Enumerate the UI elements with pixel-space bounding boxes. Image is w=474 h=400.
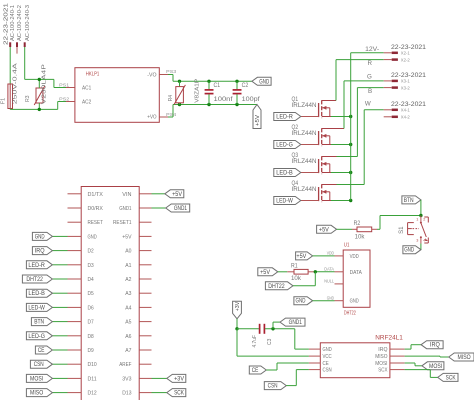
net label G — [367, 74, 372, 81]
svg-text:X2-1: X2-1 — [401, 51, 411, 56]
capacitor C2 100pf — [233, 81, 260, 104]
pin A3 (right) — [139, 292, 151, 294]
svg-text:NULL: NULL — [324, 279, 334, 284]
svg-text:3V3: 3V3 — [122, 376, 131, 382]
pin A5 (right) — [139, 321, 151, 323]
junction C1 top — [207, 80, 210, 83]
junction source Q4 — [349, 199, 352, 202]
svg-text:A5: A5 — [125, 320, 131, 326]
pin +5V (right) — [139, 235, 151, 237]
svg-text:D11: D11 — [88, 376, 97, 382]
svg-text:DHT22: DHT22 — [268, 284, 285, 290]
svg-text:1: 1 — [416, 218, 418, 222]
svg-text:LED-G: LED-G — [28, 334, 45, 340]
varistor R3 — [25, 64, 48, 105]
svg-text:GND: GND — [259, 79, 269, 85]
svg-text:IRQ: IRQ — [35, 249, 45, 255]
pin IRQ of NRF — [390, 348, 405, 350]
svg-text:GND1: GND1 — [119, 206, 131, 212]
junction node R3 bottom — [38, 108, 41, 111]
junction source Q1 — [349, 115, 352, 118]
svg-text:VCC: VCC — [323, 354, 332, 360]
pin D12 (left) — [68, 392, 82, 394]
pin MISO of NRF — [390, 355, 405, 357]
svg-text:+5V: +5V — [172, 192, 182, 198]
svg-text:10k: 10k — [355, 235, 366, 241]
svg-text:PS1: PS1 — [59, 82, 70, 87]
svg-text:MOSI: MOSI — [30, 376, 43, 382]
svg-text:AC2: AC2 — [82, 100, 91, 106]
power module PS HKLP1 — [75, 68, 159, 123]
svg-text:LED-R: LED-R — [28, 263, 45, 269]
wire +3V to NRF VCC — [237, 329, 309, 356]
svg-text:AC1: AC1 — [82, 86, 91, 92]
connector pin X4-1 — [384, 108, 411, 113]
svg-text:D12: D12 — [88, 391, 97, 397]
switch S1 pushbutton — [398, 216, 429, 244]
pin A1 (right) — [139, 264, 151, 266]
pin DATA of U1 — [324, 267, 343, 272]
wire source of Q2 to common — [331, 144, 351, 146]
svg-text:22-23-2021: 22-23-2021 — [3, 3, 9, 45]
svg-text:12V-: 12V- — [365, 46, 379, 53]
svg-text:4: 4 — [423, 239, 425, 243]
svg-text:X3-2: X3-2 — [401, 85, 411, 90]
net flag +5V (U1 VDD) — [296, 252, 335, 260]
junction DATA node — [314, 270, 317, 273]
junction C1 bottom — [207, 103, 210, 106]
svg-text:DHT22: DHT22 — [26, 277, 43, 283]
svg-text:R3: R3 — [25, 96, 31, 102]
svg-text:+5V: +5V — [319, 227, 329, 233]
svg-text:4.7uF: 4.7uF — [252, 334, 258, 347]
svg-text:R4: R4 — [168, 94, 174, 101]
pin RESET (left) — [68, 221, 82, 223]
svg-text:AC-100-240-1: AC-100-240-1 — [10, 5, 16, 41]
svg-text:X4-1: X4-1 — [401, 108, 411, 113]
net flag BTN — [402, 196, 421, 216]
net flag GND1 — [273, 318, 305, 329]
pin NULL of U1 — [324, 279, 343, 284]
svg-text:CSN: CSN — [323, 368, 332, 374]
net flag IRQ — [405, 341, 444, 349]
fuse F1 — [0, 63, 18, 109]
svg-text:BTN: BTN — [34, 320, 44, 326]
junction C2 top — [235, 80, 238, 83]
IC Arduino nano module — [81, 187, 139, 400]
transistor Q2 IRLZ44N — [292, 125, 345, 146]
svg-text:V8ZA1P: V8ZA1P — [195, 78, 201, 102]
svg-text:G: G — [367, 74, 372, 81]
pin D0/RX (left) — [68, 207, 82, 209]
pin PS3 -VO — [159, 69, 177, 74]
pin 3V3 (right) — [139, 377, 151, 379]
svg-text:SCK: SCK — [446, 375, 456, 381]
net flag CSN — [264, 370, 309, 390]
ground flag GND (U1) — [294, 297, 335, 305]
connector pin X4-2 — [384, 115, 411, 120]
pin GND (left) — [68, 235, 82, 237]
svg-text:+3V: +3V — [174, 376, 184, 382]
transistor Q3 IRLZ44N — [292, 153, 337, 174]
net flag DHT22 (data) — [265, 272, 315, 290]
connector X1 pin AC-100-240-1 — [9, 5, 16, 47]
svg-text:CE: CE — [323, 361, 329, 367]
svg-text:CE: CE — [38, 348, 45, 354]
pin D13 (right) — [139, 392, 151, 394]
net flag LED-G at gate of Q2 — [274, 141, 301, 149]
svg-text:R: R — [368, 60, 373, 67]
net flag DHT22 at pin D4 — [22, 275, 67, 283]
svg-text:R2: R2 — [354, 221, 361, 227]
net flag LED-W at gate of Q4 — [274, 197, 301, 205]
pin D1/TX (left) — [68, 193, 82, 195]
svg-text:CE: CE — [252, 368, 259, 374]
net flag MOSI — [405, 362, 444, 370]
wire top rail AC to PS1 — [25, 79, 66, 88]
pin VIN (right) — [139, 193, 151, 195]
pin D6 (left) — [68, 306, 82, 308]
capacitor C3 4.7uF — [237, 324, 295, 348]
net flag LED-B at gate of Q3 — [274, 169, 301, 177]
pin VDD of U1 — [327, 251, 344, 256]
net flag MISO — [405, 353, 474, 361]
pin A6 (right) — [139, 335, 151, 337]
svg-text:R1: R1 — [291, 263, 298, 269]
svg-text:100pf: 100pf — [242, 97, 260, 103]
svg-text:C1: C1 — [214, 83, 221, 89]
net flag LED-B at pin D5 — [26, 289, 67, 297]
pin D9 (left) — [68, 349, 82, 351]
pin D2 (left) — [68, 250, 82, 252]
pin GND of NRF — [309, 348, 320, 350]
svg-text:LED-W: LED-W — [28, 305, 45, 311]
svg-text:C2: C2 — [242, 83, 249, 89]
net flag +5V at pin VIN — [152, 190, 184, 198]
svg-text:-VO: -VO — [147, 73, 157, 79]
svg-text:A2: A2 — [125, 277, 131, 283]
pin D7 (left) — [68, 321, 82, 323]
svg-text:MOSI: MOSI — [375, 361, 388, 367]
svg-text:U1: U1 — [344, 243, 350, 249]
pin CSN of NRF — [309, 369, 320, 371]
net flag +5V (to R2) — [317, 225, 337, 233]
connector pin X3-2 — [384, 85, 411, 90]
ground flag GND (supply) — [252, 77, 271, 85]
svg-text:GND: GND — [350, 299, 359, 305]
wire source of Q1 to common — [331, 116, 351, 118]
svg-text:GND: GND — [296, 299, 306, 305]
svg-text:+3V: +3V — [235, 302, 241, 312]
net flag GND at pin GND — [32, 232, 67, 240]
svg-text:VDD: VDD — [350, 254, 359, 260]
wire net B to X3-2 — [357, 87, 383, 89]
svg-text:MOSI: MOSI — [429, 364, 442, 370]
sensor U1 DHT22 — [343, 243, 370, 317]
net flag MOSI at pin D11 — [26, 374, 67, 382]
net flag IRQ at pin D2 — [32, 247, 67, 255]
svg-text:LED-B: LED-B — [276, 171, 293, 177]
svg-text:LED-B: LED-B — [28, 291, 45, 297]
svg-text:GND1: GND1 — [174, 206, 188, 212]
junction R4 top — [178, 80, 181, 83]
svg-text:GND: GND — [35, 234, 45, 240]
junction R4 bottom — [178, 103, 181, 106]
capacitor C1 100nf — [205, 81, 233, 104]
wire net G to X3-1 — [344, 80, 384, 82]
svg-text:RESET: RESET — [88, 220, 104, 226]
pin GND1 (right) — [139, 207, 151, 209]
net flag CE at pin D9 — [35, 346, 67, 354]
label date 22-23-2021 (X2) — [391, 44, 426, 51]
net flag SCK at pin D13 — [152, 389, 186, 397]
svg-text:HKLP1: HKLP1 — [86, 72, 100, 78]
svg-text:+5V: +5V — [296, 254, 306, 260]
svg-text:10k: 10k — [291, 276, 302, 282]
svg-text:GND: GND — [404, 248, 414, 254]
pin PS4 +VO — [159, 112, 177, 117]
svg-text:D4: D4 — [88, 277, 94, 283]
svg-text:IRQ: IRQ — [378, 347, 388, 353]
connector X1 pin AC-100-240-3 — [24, 5, 31, 47]
svg-text:D9: D9 — [88, 348, 94, 354]
net label R — [368, 60, 373, 67]
wire drain of Q1 — [335, 60, 337, 101]
wire R2 to switch S1 — [380, 216, 421, 230]
svg-text:D2: D2 — [88, 249, 94, 255]
pin D4 (left) — [68, 278, 82, 280]
pin A0 (right) — [139, 250, 151, 252]
svg-text:BTN: BTN — [404, 198, 414, 204]
svg-text:+5V: +5V — [260, 270, 270, 276]
pin D5 (left) — [68, 292, 82, 294]
svg-text:D0/RX: D0/RX — [88, 206, 104, 212]
wire -VO to GND rail — [168, 75, 252, 82]
net label B — [368, 88, 372, 95]
junction +3V node — [235, 327, 238, 330]
junction node R3 top — [38, 78, 41, 81]
wire drain of Q3 — [337, 88, 358, 157]
svg-text:CSN: CSN — [268, 384, 278, 390]
svg-text:IRLZ44N: IRLZ44N — [292, 131, 317, 137]
net flag LED-W at pin D6 — [26, 303, 67, 311]
svg-text:+VO: +VO — [147, 115, 157, 121]
svg-text:+5V: +5V — [122, 234, 131, 240]
net flag CSN at pin D10 — [30, 360, 67, 368]
svg-text:PS2: PS2 — [59, 96, 70, 101]
transistor Q4 IRLZ44N — [292, 181, 337, 202]
varistor R4 — [168, 78, 201, 104]
svg-text:X4-2: X4-2 — [401, 115, 411, 120]
label date 22-23-2021 (X4) — [391, 101, 426, 108]
net flag LED-R at gate of Q1 — [274, 113, 301, 121]
svg-text:DATA: DATA — [324, 267, 334, 272]
svg-text:GND: GND — [327, 296, 334, 301]
junction BTN node — [419, 214, 422, 217]
net label W — [365, 100, 371, 107]
wire net W to X4-1 — [364, 109, 384, 111]
resistor R1 10k — [287, 263, 334, 282]
connector pin X2-1 — [384, 51, 411, 56]
svg-text:LED-R: LED-R — [276, 115, 293, 121]
svg-text:D5: D5 — [88, 291, 94, 297]
svg-text:A0: A0 — [125, 249, 131, 255]
svg-text:D10: D10 — [88, 362, 97, 368]
resistor R2 10k — [337, 221, 380, 241]
connector pin X3-1 — [384, 79, 411, 84]
wire bottom rail fuse to R3 to PS2 — [10, 102, 66, 110]
pin D8 (left) — [68, 335, 82, 337]
svg-text:X2-2: X2-2 — [401, 57, 411, 62]
svg-text:D6: D6 — [88, 305, 94, 311]
svg-text:D8: D8 — [88, 334, 94, 340]
svg-text:CSN: CSN — [34, 362, 44, 368]
svg-text:A1: A1 — [125, 263, 131, 269]
wire AC pin3 down to node — [24, 47, 26, 79]
svg-text:IRLZ44N: IRLZ44N — [292, 159, 317, 165]
net flag BTN at pin D7 — [31, 318, 67, 326]
svg-text:IRLZ44N: IRLZ44N — [292, 103, 317, 109]
pin SCX of NRF — [390, 369, 405, 371]
wire AC line pin1 to fuse F1 — [9, 47, 11, 84]
wire net R to X2-2 — [336, 59, 384, 61]
module NRF24L1 — [320, 336, 403, 378]
svg-text:MISO: MISO — [458, 355, 471, 361]
junction source Q2 — [349, 143, 352, 146]
net flag +3V at pin 3V3 — [152, 374, 186, 382]
pin A4 (right) — [139, 306, 151, 308]
svg-text:AREF: AREF — [119, 362, 132, 368]
wire +VO to +5V rail — [168, 105, 257, 118]
svg-text:MISO: MISO — [375, 354, 388, 360]
net flag CE — [249, 363, 309, 374]
net flag LED-R at pin D3 — [26, 261, 67, 269]
net flag LED-G at pin D8 — [26, 332, 67, 340]
svg-text:GND1: GND1 — [289, 320, 303, 326]
svg-text:D3: D3 — [88, 263, 94, 269]
svg-text:LED-W: LED-W — [276, 199, 293, 205]
pin A7 (right) — [139, 349, 151, 351]
net flag GND1 at pin GND1 — [152, 204, 190, 212]
svg-text:LED-G: LED-G — [276, 143, 293, 149]
svg-text:VIN: VIN — [122, 192, 131, 198]
pin D10 (left) — [68, 363, 82, 365]
svg-text:NRF24L1: NRF24L1 — [375, 336, 403, 342]
pin RESET1 (right) — [139, 221, 151, 223]
power flag +5V (supply, vertical) — [253, 105, 261, 129]
svg-text:IRQ: IRQ — [430, 343, 440, 349]
svg-text:AC-100-240-3: AC-100-240-3 — [25, 5, 31, 41]
svg-text:IRLZ44N: IRLZ44N — [292, 187, 317, 193]
pin VCC of NRF — [309, 355, 320, 357]
power flag +3V (vertical) — [233, 301, 242, 329]
pin GND of U1 — [327, 296, 344, 301]
connector X1 pin AC-100-240-2 — [16, 5, 23, 54]
wire source of Q4 to common — [331, 200, 351, 202]
svg-text:A4: A4 — [125, 305, 131, 311]
pin AREF (right) — [139, 363, 151, 365]
net label 12V- — [365, 46, 379, 53]
transistor Q1 IRLZ44N — [292, 97, 337, 118]
svg-text:PS3: PS3 — [166, 69, 177, 74]
svg-text:VDD: VDD — [327, 251, 334, 256]
svg-text:100nf: 100nf — [214, 97, 233, 103]
label date 22-23-2021 (top left) — [3, 3, 9, 45]
wire common source net 12V- — [351, 53, 384, 201]
junction C2 bottom — [235, 103, 238, 106]
pin PS2 AC2 — [59, 96, 75, 101]
svg-text:MISO: MISO — [30, 391, 43, 397]
svg-text:A6: A6 — [125, 334, 131, 340]
svg-text:B: B — [368, 88, 372, 95]
pin A2 (right) — [139, 278, 151, 280]
svg-text:3: 3 — [416, 239, 418, 243]
svg-text:W: W — [365, 100, 371, 107]
svg-text:A3: A3 — [125, 291, 131, 297]
svg-text:X3-1: X3-1 — [401, 79, 411, 84]
wire drain of Q4 — [337, 110, 365, 185]
svg-text:D1/TX: D1/TX — [88, 192, 104, 198]
svg-text:+5V: +5V — [255, 115, 261, 126]
svg-text:SCX: SCX — [378, 368, 387, 374]
pin D11 (left) — [68, 377, 82, 379]
svg-text:PS4: PS4 — [166, 112, 177, 117]
svg-text:C3: C3 — [267, 339, 273, 345]
svg-text:GND: GND — [323, 347, 332, 353]
pin CE of NRF — [309, 362, 320, 364]
pin D3 (left) — [68, 264, 82, 266]
net flag +5V (to R1) — [258, 268, 288, 276]
svg-text:2: 2 — [423, 218, 425, 222]
wire drain of Q2 — [343, 81, 345, 129]
net flag MISO at pin D12 — [26, 389, 67, 397]
junction source Q3 — [349, 171, 352, 174]
svg-text:D13: D13 — [122, 391, 131, 397]
wire C3 to NRF GND — [295, 329, 309, 349]
svg-text:V230LA4P: V230LA4P — [42, 64, 48, 104]
junction GND1 node — [271, 327, 274, 330]
pin PS1 AC1 — [59, 82, 75, 87]
pin MOSI of NRF — [390, 362, 405, 364]
svg-text:250V-0.4A: 250V-0.4A — [13, 63, 19, 105]
connector pin X2-2 — [384, 57, 411, 62]
svg-text:GND: GND — [88, 234, 97, 240]
svg-text:A7: A7 — [125, 348, 131, 354]
svg-text:S1: S1 — [398, 226, 405, 234]
svg-text:DATA: DATA — [350, 270, 363, 276]
wire source of Q3 to common — [331, 172, 351, 174]
svg-text:DHT22: DHT22 — [344, 310, 356, 316]
net flag SCK — [405, 370, 458, 382]
svg-text:RESET1: RESET1 — [113, 220, 132, 226]
svg-text:D7: D7 — [88, 320, 94, 326]
label date 22-23-2021 (X3) — [391, 72, 426, 79]
svg-text:F1: F1 — [0, 98, 6, 104]
svg-text:SCK: SCK — [174, 391, 184, 397]
svg-text:AC-100-240-2: AC-100-240-2 — [17, 5, 23, 41]
ground flag GND (S1) — [403, 244, 421, 254]
